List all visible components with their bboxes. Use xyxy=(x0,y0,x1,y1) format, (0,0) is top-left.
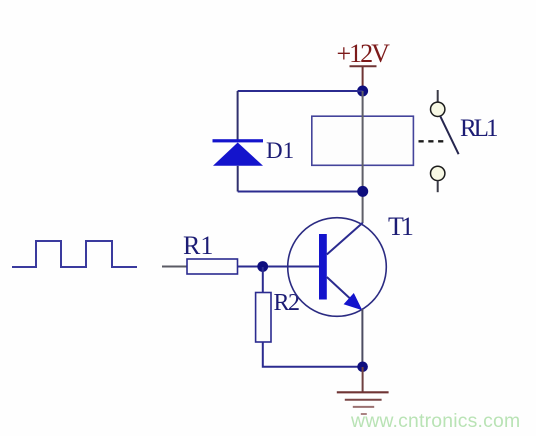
label R2 xyxy=(274,290,300,316)
power +12V label xyxy=(337,39,391,68)
wire node to R2 xyxy=(262,267,264,293)
svg-text:T1: T1 xyxy=(388,212,413,241)
diode D1 xyxy=(213,139,264,166)
dashed actuation line xyxy=(419,140,447,142)
label RL1 xyxy=(460,115,497,142)
watermark xyxy=(350,410,520,432)
wire R1 to base node xyxy=(238,266,320,268)
wire power stem xyxy=(362,66,364,91)
wire top horizontal to diode branch xyxy=(238,90,363,92)
input square wave signal xyxy=(12,241,137,267)
node power junction xyxy=(357,86,368,97)
wire R2 bottom to emitter node xyxy=(263,342,363,367)
resistor R2 xyxy=(256,293,271,343)
wire diode branch lower vertical xyxy=(237,166,239,192)
label R1 xyxy=(183,231,213,260)
relay contact terminal bottom xyxy=(431,166,445,180)
wire emitter to ground node xyxy=(361,309,363,367)
relay contact stub bottom xyxy=(437,181,439,193)
relay contact terminal top xyxy=(431,102,445,116)
svg-text:www.cntronics.com: www.cntronics.com xyxy=(350,410,520,432)
svg-text:R1: R1 xyxy=(183,231,213,260)
svg-text:D1: D1 xyxy=(266,138,294,163)
node base junction xyxy=(257,261,268,272)
transistor T1 xyxy=(288,218,387,317)
node collector junction xyxy=(357,186,368,197)
label T1 xyxy=(388,212,413,241)
relay contact stub top xyxy=(437,90,439,102)
svg-text:+12V: +12V xyxy=(337,39,391,68)
node emitter ground junction xyxy=(357,362,368,373)
power bar symbol xyxy=(350,65,377,67)
wire bottom horizontal diode to collector node xyxy=(238,191,363,193)
wire input to R1 xyxy=(162,266,187,268)
resistor R1 xyxy=(187,259,238,274)
relay coil box xyxy=(312,116,414,165)
wire diode branch upper vertical xyxy=(237,91,239,140)
ground xyxy=(337,367,389,414)
label D1 xyxy=(266,138,294,163)
relay switch arm xyxy=(440,116,458,154)
wire relay vertical through coil xyxy=(362,91,364,223)
svg-text:RL1: RL1 xyxy=(460,115,497,142)
